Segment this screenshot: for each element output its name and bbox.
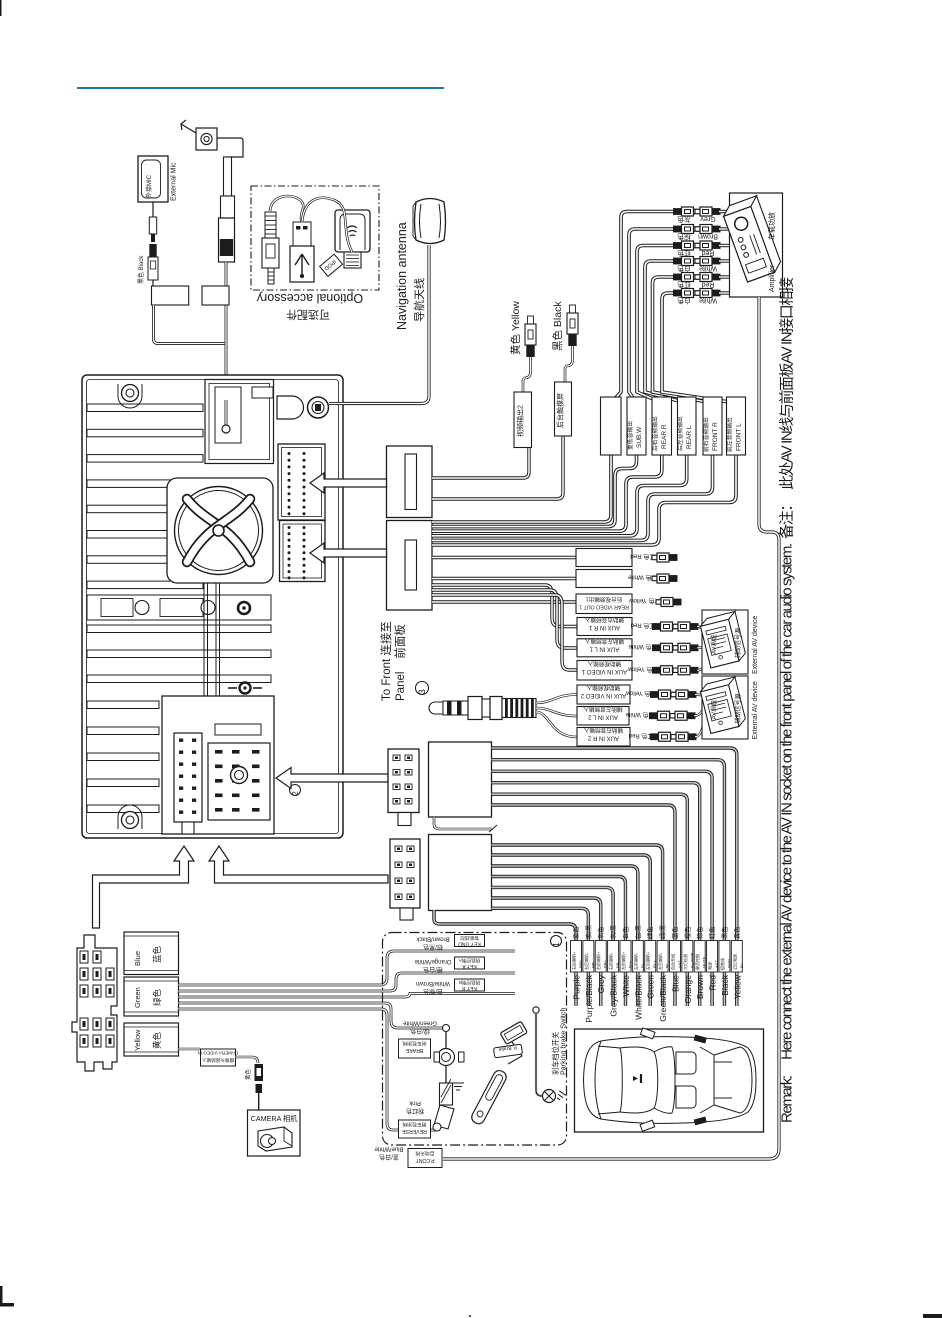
- svg-text:White: White: [621, 975, 631, 997]
- svg-text:Yellow: Yellow: [732, 974, 742, 999]
- svg-text:自动天线: 自动天线: [415, 1150, 434, 1157]
- svg-text:辅助右音频输入: 辅助右音频输入: [585, 616, 625, 624]
- svg-text:重低音输出: 重低音输出: [626, 421, 634, 450]
- wire camera video: [179, 1048, 201, 1051]
- chassis pin connector upper: [278, 444, 325, 520]
- svg-text:左前喇叭+: 左前喇叭+: [620, 951, 626, 970]
- page corner mark top-left: [0, 0, 2, 16]
- speaker wire 5: [432, 277, 713, 540]
- accessory USB plug: [293, 222, 311, 246]
- black plug: [570, 305, 576, 313]
- speaker wire 1: [432, 212, 673, 523]
- svg-text:RR-: RR-: [590, 960, 595, 968]
- svg-text:白色: 白色: [677, 297, 691, 306]
- svg-text:后台视频输出1: 后台视频输出1: [586, 596, 623, 604]
- svg-text:KEY B: KEY B: [462, 985, 477, 991]
- amplifier remote wire: [443, 297, 779, 1159]
- svg-text:KEY GND: KEY GND: [458, 941, 481, 947]
- svg-text:橙/白色: 橙/白色: [423, 966, 443, 974]
- svg-text:External AV device: External AV device: [752, 616, 759, 674]
- svg-text:Purple: Purple: [572, 975, 582, 1000]
- AV-IN plug wires: [536, 695, 577, 704]
- svg-text:后台触摸屏: 后台触摸屏: [556, 393, 565, 428]
- RCA pair Brown to amplifier: [673, 226, 682, 233]
- wire to column 8: [492, 805, 675, 1006]
- svg-text:大灯检测: 大灯检测: [682, 954, 688, 970]
- mic inline connector black: [149, 244, 156, 257]
- svg-text:REVERSE: REVERSE: [402, 1128, 427, 1134]
- external mic box: [138, 156, 168, 202]
- RCA pair White to amplifier: [673, 290, 682, 297]
- svg-text:辅助信号源: 辅助信号源: [734, 693, 742, 723]
- svg-text:红色: 红色: [709, 927, 717, 939]
- svg-text:灰色: 灰色: [677, 215, 691, 224]
- svg-text:右后喇叭-: 右后喇叭-: [583, 952, 589, 970]
- svg-text:Orange: Orange: [683, 975, 693, 1004]
- AUX IN R 1 label box: [577, 618, 632, 636]
- svg-text:辅助左音频输入: 辅助左音频输入: [585, 637, 625, 645]
- svg-text:黄色: 黄色: [152, 1031, 162, 1049]
- svg-text:车载功放: 车载功放: [767, 212, 776, 240]
- callout 3: [416, 682, 429, 695]
- wire KEY GND: [179, 951, 516, 985]
- svg-text:3: 3: [417, 689, 427, 694]
- RCA pair Grey to amplifier: [673, 208, 682, 215]
- wire to video out 2 box: [432, 447, 529, 478]
- svg-text:FRONT L: FRONT L: [736, 423, 743, 451]
- svg-text:Green: Green: [133, 987, 142, 1008]
- wire KEY B: [179, 994, 516, 998]
- svg-text:FRONT R: FRONT R: [712, 422, 719, 451]
- SUB.W output box: [627, 397, 646, 455]
- chassis screw top-left: [122, 385, 139, 402]
- upper harness plug: [387, 446, 433, 518]
- svg-text:MUTE: MUTE: [702, 956, 707, 968]
- svg-text:SUB.W: SUB.W: [636, 426, 643, 448]
- svg-text:右后喇叭+: 右后喇叭+: [571, 951, 577, 970]
- AV-IN 3.5mm plug: [429, 702, 443, 714]
- svg-text:REAR R: REAR R: [661, 424, 668, 449]
- accessory cables: [270, 196, 303, 222]
- svg-text:白/黑: 白/黑: [634, 925, 642, 939]
- REAR AUDIO R label box: [576, 549, 632, 567]
- svg-text:Blue: Blue: [133, 951, 142, 966]
- svg-text:绿色: 绿色: [647, 927, 655, 939]
- svg-text:外接MIC: 外接MIC: [145, 174, 153, 198]
- switch lamp wire: [533, 1007, 539, 1013]
- chassis pin connector lower: [280, 521, 326, 582]
- svg-text:AUX IN R 1: AUX IN R 1: [588, 624, 620, 630]
- svg-text:Panel 前面板: Panel 前面板: [393, 624, 407, 701]
- svg-text:后右音频输出: 后右音频输出: [651, 416, 659, 451]
- speaker wire 2: [432, 229, 673, 527]
- svg-text:Red: Red: [701, 281, 714, 288]
- svg-text:CAMERA VIDEO IN: CAMERA VIDEO IN: [198, 1051, 239, 1056]
- svg-text:钥匙控制A: 钥匙控制A: [458, 957, 480, 964]
- REAR R output box: [652, 397, 672, 455]
- svg-text:Optional accessory: Optional accessory: [256, 291, 363, 305]
- yellow plug: [528, 316, 534, 324]
- svg-text:Blue: Blue: [670, 975, 680, 992]
- arrow into rear connector: [276, 768, 388, 789]
- svg-text:GND: GND: [726, 959, 731, 968]
- svg-text:蓝色: 蓝色: [671, 927, 679, 939]
- svg-text:AUX IN L 2: AUX IN L 2: [587, 713, 617, 719]
- rear touch screen box: [555, 382, 572, 436]
- wire KEY A: [179, 973, 516, 991]
- svg-text:REAR L: REAR L: [686, 425, 693, 449]
- svg-text:紫色: 紫色: [573, 927, 581, 939]
- bottom connector right block: [208, 743, 270, 820]
- svg-text:White/Brown: White/Brown: [416, 980, 450, 986]
- chassis vertical channel: [203, 583, 205, 696]
- svg-text:灰色: 灰色: [597, 927, 605, 939]
- FRONT R output box: [703, 397, 722, 455]
- svg-text:FL+: FL+: [627, 960, 632, 968]
- svg-text:Grey/Black: Grey/Black: [609, 974, 619, 1016]
- wire to column 5: [492, 866, 638, 1006]
- hand brake lever: [470, 1068, 509, 1125]
- svg-text:Grey: Grey: [596, 974, 606, 993]
- bottom connector left block: [174, 733, 202, 822]
- Green wire group box: [124, 977, 179, 1016]
- up arrow duct 1: [93, 846, 195, 928]
- svg-text:REAR VIDEO OUT 1: REAR VIDEO OUT 1: [579, 604, 629, 610]
- wire REAR VIDEO OUT1: [432, 600, 576, 603]
- svg-text:自动天线: 自动天线: [669, 954, 675, 970]
- svg-text:Amplifier: Amplifier: [769, 264, 776, 292]
- svg-text:电源: 电源: [707, 962, 713, 970]
- navigation antenna wire: [330, 245, 429, 404]
- wire jack to nav antenna: [329, 402, 360, 405]
- svg-text:倒车检测线: 倒车检测线: [402, 1121, 426, 1128]
- svg-text:辅助右音频输入: 辅助右音频输入: [584, 726, 624, 734]
- wire to column 3: [492, 887, 614, 1006]
- brake knob: [438, 1049, 455, 1066]
- svg-text:黑色: 黑色: [721, 927, 729, 939]
- REAR VIDEO OUT 1 label box: [576, 594, 632, 614]
- svg-text:Red: Red: [708, 975, 718, 991]
- arrow into lower connector: [310, 543, 387, 563]
- svg-text:橙色: 橙色: [684, 927, 692, 939]
- brake cylinder: [440, 1083, 453, 1105]
- svg-text:摄像头视频输入: 摄像头视频输入: [202, 1057, 235, 1064]
- accessory iPod connector: [335, 210, 370, 252]
- chassis antenna jack: [277, 396, 304, 419]
- wire to column 13: [492, 748, 737, 1006]
- svg-text:Red: Red: [701, 249, 714, 256]
- callout 1: [551, 936, 562, 947]
- svg-text:视频输出2: 视频输出2: [516, 405, 525, 437]
- cooling fan: [167, 478, 273, 583]
- speaker wire 3: [432, 246, 673, 532]
- svg-text:AUX IN L 1: AUX IN L 1: [589, 645, 619, 651]
- svg-text:左前喇叭-: 左前喇叭-: [632, 952, 638, 970]
- antenna wire into chassis: [225, 262, 228, 400]
- svg-text:右前喇叭+: 右前喇叭+: [595, 951, 601, 970]
- svg-text:White: White: [699, 265, 717, 272]
- svg-text:Green/Black: Green/Black: [658, 974, 668, 1022]
- svg-text:左后喇叭+: 左后喇叭+: [645, 951, 651, 970]
- external AV device box 1: [702, 610, 748, 674]
- svg-text:Black: Black: [720, 974, 730, 996]
- svg-text:RL+: RL+: [652, 960, 657, 968]
- svg-text:External AV device: External AV device: [752, 681, 759, 739]
- ISO harness connector: [72, 935, 117, 1071]
- svg-text:绿/白色: 绿/白色: [410, 1027, 430, 1035]
- svg-text:Parking brake Switch: Parking brake Switch: [559, 1007, 568, 1075]
- svg-text:AV系统: AV系统: [710, 634, 718, 654]
- AUX IN VIDEO 2 label box: [577, 685, 630, 704]
- Yellow wire group box: [124, 1023, 179, 1056]
- svg-text:左后喇叭-: 左后喇叭-: [657, 952, 663, 970]
- upper harness box: [429, 742, 492, 817]
- wire to column 12: [492, 760, 725, 1006]
- mic wire: [152, 280, 154, 286]
- wire to column 2: [492, 898, 601, 1006]
- brake switch node: [443, 1025, 450, 1032]
- svg-text:FR+: FR+: [603, 960, 608, 968]
- wire to column 9: [492, 794, 688, 1006]
- svg-text:Brown: Brown: [698, 233, 718, 240]
- svg-text:钥匙控制B: 钥匙控制B: [459, 979, 480, 986]
- chassis bottom connector assembly: [162, 696, 274, 834]
- car mirrors: [640, 1028, 655, 1039]
- svg-text:可选配件: 可选配件: [286, 308, 330, 321]
- svg-text:AUX IN VIDEO 2: AUX IN VIDEO 2: [580, 692, 626, 698]
- lower harness plug: [387, 521, 433, 611]
- svg-text:黄色: 黄色: [733, 927, 741, 939]
- chassis top sub-box (mic input): [205, 380, 274, 464]
- chassis mid band: [87, 595, 271, 620]
- lower harness box: [429, 835, 492, 911]
- blank output box: [601, 397, 622, 455]
- car emblem: [633, 1076, 638, 1081]
- svg-text:智能线控: 智能线控: [460, 935, 479, 942]
- brake ground: [452, 1083, 464, 1090]
- car top view: [584, 1037, 757, 1124]
- external mic plug: [152, 202, 154, 217]
- svg-text:B+: B+: [739, 962, 744, 968]
- antenna wire junction box: [202, 286, 229, 305]
- REAR AUDIO L label box: [576, 570, 632, 588]
- chassis screw bottom-left: [122, 812, 139, 829]
- svg-text:蓝色: 蓝色: [152, 945, 162, 963]
- camera video in label box: [201, 1049, 236, 1066]
- svg-text:辅助信号源: 辅助信号源: [734, 628, 742, 658]
- parking sign: [493, 1043, 522, 1058]
- wire AUX row 6: [432, 595, 577, 670]
- RCA pair Red to amplifier: [673, 242, 682, 249]
- wire AUX row 5: [432, 590, 577, 648]
- wire REAR AUDIO Red: [432, 556, 576, 559]
- svg-text:ANT: ANT: [677, 959, 682, 968]
- chassis mid screw: [240, 683, 251, 694]
- AUX IN R 2 label box: [577, 728, 630, 747]
- svg-text:AV系统: AV系统: [710, 700, 718, 720]
- svg-text:1: 1: [552, 942, 561, 947]
- car box: [575, 1029, 764, 1132]
- svg-text:Grey: Grey: [700, 215, 716, 222]
- svg-text:FR-: FR-: [615, 961, 620, 968]
- svg-text:FL-: FL-: [640, 961, 645, 968]
- camera box: [248, 1110, 301, 1156]
- svg-text:White/Black: White/Black: [633, 974, 643, 1020]
- svg-text:BRAKE: BRAKE: [405, 1047, 423, 1053]
- svg-text:黄色: 黄色: [244, 1068, 252, 1080]
- video out 2 box: [514, 392, 532, 448]
- svg-text:External Mic: External Mic: [171, 162, 178, 201]
- svg-text:刹车检测线: 刹车检测线: [402, 1040, 426, 1047]
- foot pedal assembly: [500, 1021, 527, 1044]
- upper 8-pin connector: [388, 749, 419, 813]
- lower 8-pin connector: [390, 839, 420, 908]
- svg-text:右前喇叭-: 右前喇叭-: [608, 952, 614, 970]
- svg-text:KEY A: KEY A: [462, 963, 477, 969]
- speaker wire 6: [432, 293, 736, 545]
- arrow into upper connector: [310, 473, 387, 493]
- svg-text:灰/黑: 灰/黑: [610, 925, 618, 939]
- svg-text:RL-: RL-: [665, 961, 670, 968]
- wire to column 1: [492, 908, 589, 1006]
- head unit chassis: [82, 375, 343, 838]
- AUX IN VIDEO 1 label box: [577, 661, 632, 681]
- svg-text:绿/黑: 绿/黑: [659, 925, 667, 939]
- svg-text:白/棕色: 白/棕色: [423, 988, 443, 996]
- svg-text:棕色: 棕色: [696, 927, 704, 939]
- page mark: [923, 1314, 942, 1318]
- svg-text:Purple/Black: Purple/Black: [584, 974, 594, 1022]
- wire REAR AUDIO White: [432, 577, 576, 580]
- svg-text:静音控制: 静音控制: [694, 954, 700, 970]
- svg-text:Orange/White: Orange/White: [414, 958, 452, 964]
- svg-text:导航天线: 导航天线: [412, 278, 426, 322]
- svg-text:ACC: ACC: [714, 959, 719, 968]
- svg-text:粉红色: 粉红色: [406, 1107, 424, 1115]
- svg-text:Green: Green: [646, 975, 656, 999]
- upper harness hook wire: [434, 817, 492, 829]
- speaker wire 4: [432, 261, 687, 536]
- wire to column 6: [492, 855, 651, 1006]
- radio antenna icon: [196, 128, 217, 150]
- svg-text:AUX IN R 2: AUX IN R 2: [587, 734, 619, 740]
- antenna plug: [224, 157, 232, 196]
- antenna lead wire: [217, 138, 243, 157]
- svg-text:Pink: Pink: [408, 1100, 421, 1106]
- svg-text:辅助左音频输入: 辅助左音频输入: [583, 705, 623, 713]
- svg-text:ILL/AMP: ILL/AMP: [689, 952, 694, 968]
- svg-text:Navigation antenna: Navigation antenna: [395, 222, 409, 330]
- RCA pair Red to amplifier: [673, 274, 682, 281]
- wire to column 0 (purple): [434, 910, 576, 1006]
- navigation antenna head: [415, 199, 446, 244]
- optional accessory box: [251, 186, 379, 290]
- up arrow duct 2: [209, 846, 388, 883]
- RCA pair White to amplifier: [673, 258, 682, 265]
- header rule (blue): [77, 87, 444, 89]
- AUX IN L 2 label box: [577, 707, 629, 726]
- svg-text:黑色 Black: 黑色 Black: [551, 301, 564, 351]
- svg-text:CAMERA 相机: CAMERA 相机: [251, 1114, 299, 1123]
- page corner mark bottom-left: [0, 1286, 14, 1307]
- wire AUX row 4: [432, 585, 577, 627]
- svg-text:Blue/White: Blue/White: [374, 1146, 404, 1152]
- svg-text:Brown: Brown: [695, 975, 705, 999]
- Blue wire group box: [124, 932, 179, 975]
- wire REVERSE: [179, 1009, 437, 1130]
- svg-text:黄色 Yellow: 黄色 Yellow: [509, 301, 522, 355]
- wire to column 7: [492, 845, 663, 1006]
- wire to rear touch box: [432, 436, 563, 499]
- chassis left heatsink fins: [87, 404, 203, 412]
- lamp: [543, 1090, 556, 1103]
- svg-text:红色 Red: 红色 Red: [629, 732, 654, 740]
- svg-text:白色: 白色: [622, 927, 630, 939]
- svg-text:绿色: 绿色: [152, 988, 162, 1006]
- svg-text:White: White: [699, 297, 717, 304]
- svg-text:辅助视频输入: 辅助视频输入: [587, 660, 621, 668]
- accessory iPod tag: [320, 254, 343, 276]
- svg-text:棕色: 棕色: [677, 233, 691, 242]
- wire to column 4: [492, 877, 626, 1007]
- svg-text:2: 2: [291, 791, 300, 796]
- svg-text:搭铁线: 搭铁线: [719, 958, 725, 970]
- svg-text:前右音频输出: 前右音频输出: [702, 417, 710, 452]
- svg-text:AUX IN VIDEO 1: AUX IN VIDEO 1: [581, 668, 627, 674]
- external AV device box 2: [702, 676, 748, 739]
- svg-text:辅助视频输入: 辅助视频输入: [586, 684, 620, 692]
- svg-text:棕/黑色: 棕/黑色: [423, 943, 443, 951]
- wire to column 10: [492, 783, 700, 1006]
- svg-text:黑色 Black: 黑色 Black: [137, 255, 145, 284]
- svg-text:Brown/Black: Brown/Black: [415, 936, 449, 942]
- amplifier box: [730, 193, 783, 297]
- svg-text:紫/黑: 紫/黑: [585, 925, 593, 939]
- brake pedal: [434, 1105, 454, 1129]
- svg-text:前左音频输出: 前左音频输出: [726, 417, 734, 452]
- svg-text:Green/White: Green/White: [403, 1020, 437, 1026]
- svg-text:P.CONT: P.CONT: [415, 1157, 435, 1163]
- wire BRAKE: [179, 1003, 444, 1028]
- callout 2: [290, 785, 301, 796]
- svg-text:后左音频输出: 后左音频输出: [676, 416, 684, 451]
- svg-text:记忆电源: 记忆电源: [731, 954, 737, 970]
- svg-text:Yellow: Yellow: [133, 1029, 142, 1051]
- parking brake switch box: [383, 933, 567, 1146]
- amplifier drawing: [721, 196, 783, 282]
- svg-text:RR+: RR+: [578, 959, 583, 968]
- svg-text:蓝/白色: 蓝/白色: [379, 1153, 399, 1161]
- AUX IN L 1 label box: [577, 639, 632, 657]
- FRONT L output box: [727, 397, 746, 455]
- wire to column 11: [492, 771, 713, 1006]
- REAR L output box: [678, 397, 697, 455]
- accessory 3.5mm plug: [265, 212, 276, 238]
- svg-text:To Front 连接至: To Front 连接至: [379, 621, 393, 701]
- svg-text:红色 Red: 红色 Red: [631, 622, 656, 630]
- chassis lower fins: [87, 625, 271, 633]
